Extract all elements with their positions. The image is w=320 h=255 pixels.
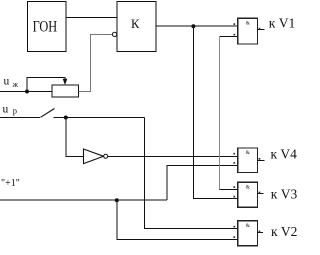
wire "+1" up to V4 lower input [167, 166, 238, 201]
output stub V4 [258, 160, 265, 162]
wire ГОН output to К input [66, 17, 117, 19]
wire u_ж input [0, 91, 52, 93]
input tick V4 pin1 [233, 153, 235, 155]
inversion bubble at К input [112, 32, 116, 36]
node junction on К output [191, 24, 195, 28]
gate V1 box [238, 18, 258, 44]
wire branch to potentiometer wiper [27, 78, 65, 92]
wire V3 upper input stub [219, 189, 237, 191]
switch S1 blade [41, 109, 55, 118]
wire inverter output to V4 upper input [108, 155, 238, 157]
wire junction down to inverter input [66, 118, 84, 157]
output stub V3 [258, 193, 264, 195]
input tick V1 pin2 [233, 34, 235, 36]
output tick V1 [259, 28, 261, 30]
svg-text:&: & [246, 150, 251, 156]
wire К output down to V3 lower input [193, 26, 237, 198]
svg-text:к V4: к V4 [271, 146, 298, 161]
wire V1 lower input stub [219, 36, 237, 38]
node junction on u_ж wire [25, 90, 29, 94]
svg-text:К: К [131, 17, 140, 31]
wire К output to V1 upper input [156, 25, 238, 27]
svg-text:&: & [246, 223, 251, 229]
potentiometer R1 [52, 85, 79, 97]
label u_р (control voltage) [3, 104, 18, 116]
output tick V4 [259, 158, 261, 160]
wire potentiometer to К inverting input [79, 35, 113, 92]
gate V4 box [238, 148, 258, 173]
svg-text:u: u [4, 76, 10, 88]
wire "+1" down to V2 lower input [117, 200, 238, 239]
inverter output bubble [104, 154, 108, 158]
svg-text:ГОН: ГОН [33, 19, 58, 36]
wiper arrowhead [63, 79, 68, 85]
svg-text:к V1: к V1 [269, 15, 295, 30]
svg-text:р: р [13, 106, 17, 116]
svg-text:&: & [246, 21, 251, 27]
wire "+1" input [0, 199, 167, 201]
wire u_р input to switch [0, 117, 40, 119]
block К (commutator) U2 [117, 2, 156, 52]
svg-text:ж: ж [12, 80, 19, 89]
wire vertical V1 lower to V3 upper [218, 37, 220, 190]
label u_ж (input voltage) [4, 76, 19, 90]
input tick V2 pin2 [233, 236, 235, 238]
svg-text:к V2: к V2 [271, 224, 297, 239]
input tick V3 pin2 [233, 196, 235, 198]
node junction on u_р wire [64, 116, 68, 120]
wire switch to corner [54, 117, 145, 119]
wire u_р down to V2 upper input [145, 118, 238, 229]
input tick V4 pin2 [233, 162, 235, 164]
output tick V2 [259, 231, 261, 233]
inverter (NOT amplifier) A1 [84, 149, 104, 164]
svg-text:&: & [246, 185, 251, 191]
svg-text:u: u [3, 104, 9, 116]
gate V3 box [238, 182, 258, 207]
output stub V1 [258, 29, 265, 31]
output tick V3 [259, 192, 261, 194]
input tick V2 pin1 [233, 226, 235, 228]
svg-text:к V3: к V3 [271, 186, 298, 201]
output stub V2 [258, 232, 263, 234]
svg-text:"+1": "+1" [1, 178, 20, 189]
node junction on "+1" wire [115, 198, 119, 202]
block ГОН (reference voltage generator) U1 [28, 2, 67, 52]
input tick V1 pin1 [233, 23, 235, 25]
input tick V3 pin1 [233, 186, 235, 188]
gate V2 box [238, 221, 258, 246]
